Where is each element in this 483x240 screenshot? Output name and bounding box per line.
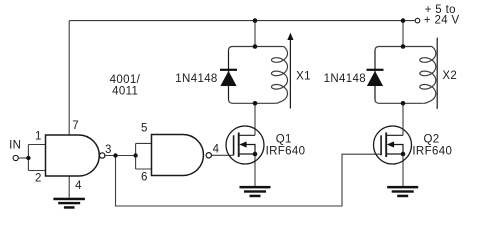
diode D2 1N4148 [367,50,384,100]
svg-text:1: 1 [35,130,42,142]
node Q1 source dot [253,152,258,157]
arrow Q1 body [239,141,246,147]
svg-text:1N4148: 1N4148 [324,73,366,85]
op-amp U1b gate [152,135,204,176]
svg-text:4001/: 4001/ [110,74,141,86]
svg-text:7: 7 [72,120,79,132]
node junction on rail above X1 [253,18,258,23]
arrow X1 armature [287,33,293,109]
wire gate1 input tie [28,145,45,171]
svg-text:X2: X2 [442,70,457,82]
svg-text:4: 4 [213,144,220,156]
op-amp U1a gate 4001/4011 [46,135,100,176]
svg-text:1N4148: 1N4148 [175,73,217,85]
pin bubble gate2 output [206,153,211,158]
terminal IN [13,155,18,160]
svg-text:Q1: Q1 [276,134,292,146]
svg-text:X1: X1 [296,71,311,83]
wire pin7 riser [68,21,70,135]
node X1 bottom junction [253,101,258,106]
wire supply rail top [69,20,415,22]
wire X2 supply drop [402,21,404,47]
wire Q2 source to ground [402,154,404,186]
transistor Q2 MOSFET [374,126,412,164]
wire gate1 output [105,155,136,157]
node junction on rail above X2 [401,18,406,23]
svg-text:5: 5 [141,122,148,134]
svg-text:IN: IN [9,140,21,152]
svg-text:Q2: Q2 [424,134,440,146]
wire X2 bottom to Q2 drain [402,103,404,135]
ground below gate1 [53,198,85,209]
wire gate2 output to Q1 gate [212,154,234,156]
wire Q2 gate branch [116,154,382,206]
wire X1 supply drop [254,21,256,47]
wire IN lead [18,157,28,159]
arrow Q2 body [387,141,394,147]
relay coil X1 frame [229,47,288,104]
node gate1 input junction [26,156,30,160]
wire X1 bottom to Q1 drain [254,103,256,135]
node Q2 source dot [401,152,406,157]
ground below Q1 [240,186,271,197]
terminal +5 to +24 V [415,18,420,23]
node X1 top junction [253,44,258,49]
svg-text:IRF640: IRF640 [266,146,306,158]
svg-text:4011: 4011 [112,86,138,98]
transistor Q1 MOSFET [226,126,264,164]
pin bubble gate1 output [100,153,105,158]
svg-text:+ 24 V: + 24 V [424,15,460,27]
node junction B gate2 input [133,153,137,157]
svg-text:4: 4 [75,180,82,192]
svg-text:3: 3 [105,144,112,156]
svg-text:IRF640: IRF640 [412,146,452,158]
svg-text:2: 2 [35,173,42,185]
wire gate1 pin4 to ground [68,176,70,198]
diode D1 1N4148 [220,50,237,100]
ground below Q2 [387,186,418,197]
bar X2 armature [436,38,438,109]
wire Q1 source to ground [254,154,256,186]
wire gate2 input tie [136,143,152,169]
node junction A after gate1 [113,153,117,157]
node X2 top junction [401,44,406,49]
node X2 bottom junction [401,101,406,106]
svg-text:6: 6 [141,172,148,184]
relay coil X2 frame [375,47,436,104]
